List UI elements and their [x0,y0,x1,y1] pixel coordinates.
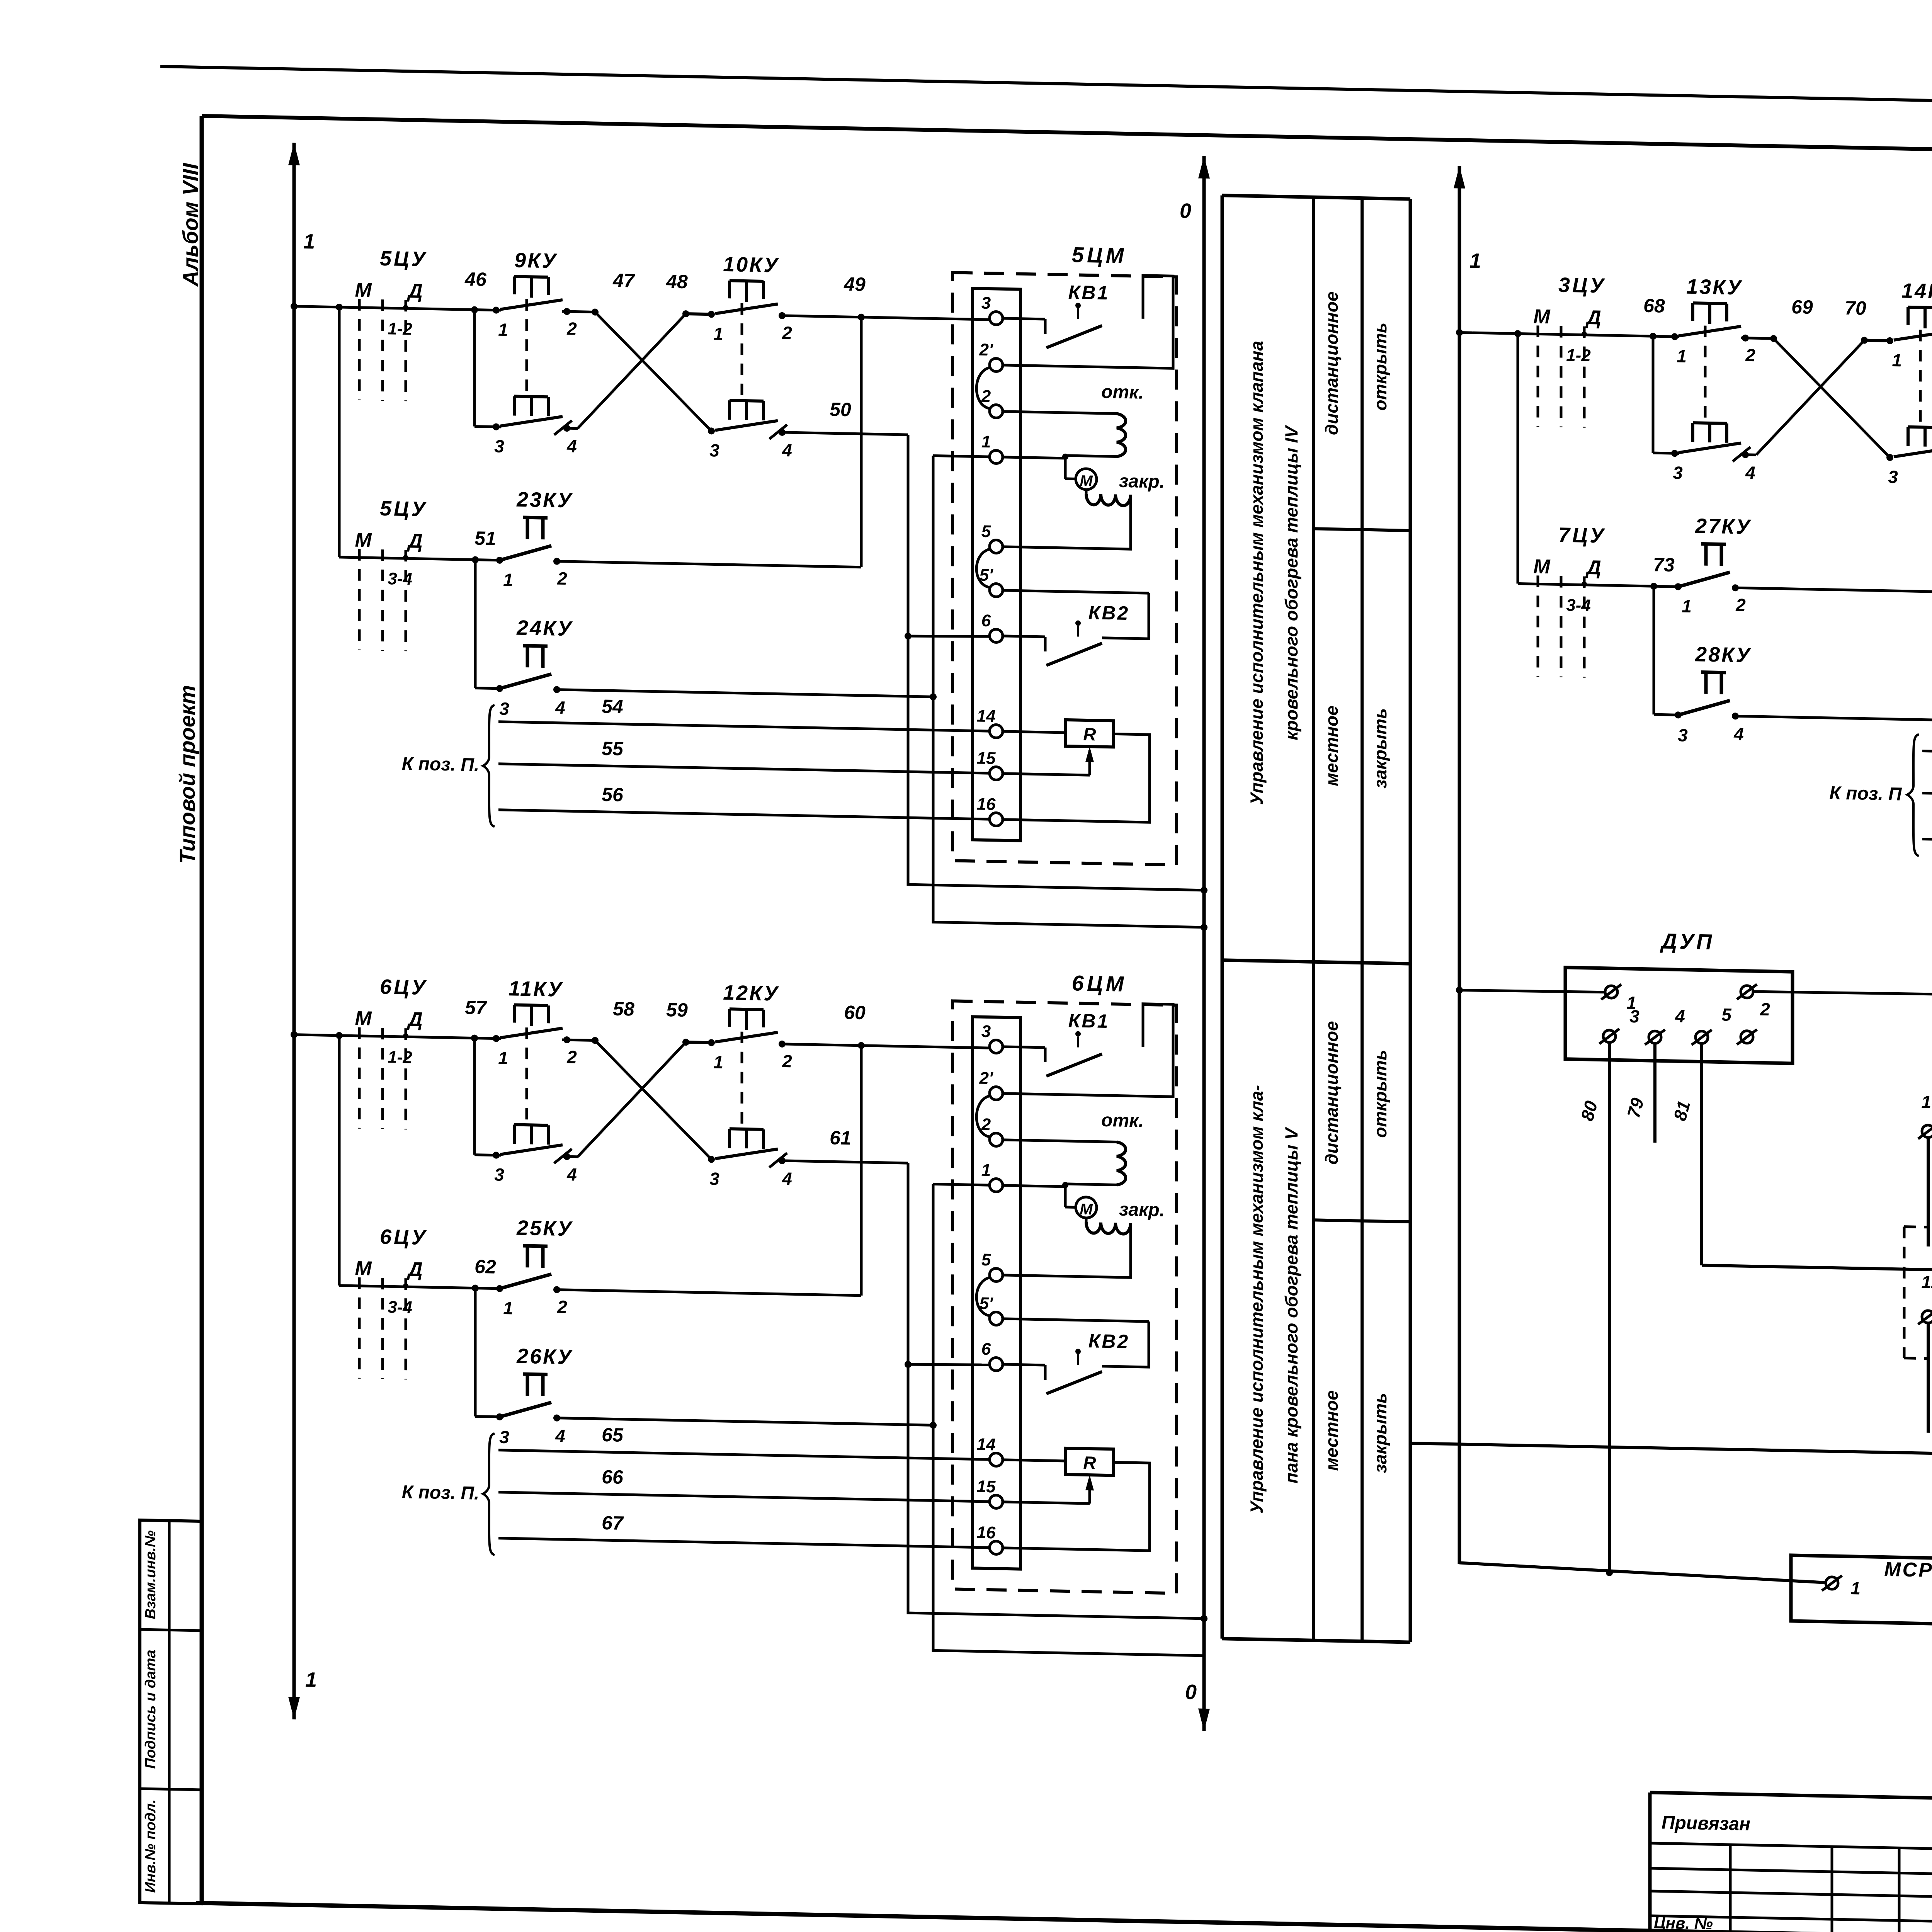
svg-text:16: 16 [977,1523,996,1543]
svg-text:Д: Д [1585,556,1601,579]
svg-text:1: 1 [1677,346,1687,366]
svg-text:М: М [355,529,372,552]
svg-text:65: 65 [602,1424,624,1446]
svg-text:3: 3 [1629,1006,1639,1026]
svg-text:57: 57 [465,997,487,1019]
svg-text:0: 0 [1180,199,1191,223]
svg-text:1: 1 [498,320,508,340]
svg-text:6: 6 [981,611,991,630]
svg-text:закр.: закр. [1119,471,1165,492]
svg-text:1: 1 [1469,249,1481,273]
svg-text:1-2: 1-2 [388,319,412,338]
svg-text:12КУ: 12КУ [723,981,779,1005]
svg-text:28КУ: 28КУ [1695,643,1752,667]
svg-text:М: М [1533,555,1551,578]
svg-text:Д: Д [1585,306,1601,329]
svg-text:47: 47 [612,269,635,291]
svg-text:Типовой проект: Типовой проект [175,685,199,864]
svg-text:5: 5 [1721,1005,1732,1025]
svg-text:К поз. П: К поз. П [1829,783,1902,805]
svg-text:3ЦУ: 3ЦУ [1558,273,1606,297]
svg-text:К поз. П.: К поз. П. [402,753,479,776]
svg-text:3: 3 [981,1022,991,1041]
svg-text:56: 56 [602,784,624,806]
svg-text:2: 2 [1760,999,1770,1019]
svg-text:закр.: закр. [1119,1199,1165,1221]
svg-text:Управление исполнительным меха: Управление исполнительным механизмом кла… [1247,340,1267,805]
svg-text:6: 6 [981,1340,991,1359]
svg-text:1: 1 [1892,350,1902,370]
svg-text:Взам.инв.№: Взам.инв.№ [143,1530,159,1619]
svg-text:12: 12 [1921,1272,1932,1292]
svg-text:60: 60 [844,1002,866,1024]
svg-text:70: 70 [1845,297,1866,319]
svg-text:1-2: 1-2 [388,1048,412,1067]
svg-text:3-4: 3-4 [388,569,412,588]
svg-text:2: 2 [1735,595,1746,615]
svg-text:Д: Д [406,1258,423,1281]
svg-text:ДУП: ДУП [1660,929,1714,954]
svg-text:Управление исполнительным меха: Управление исполнительным механизмом кла… [1247,1085,1267,1514]
svg-text:МСР: МСР [1884,1558,1932,1582]
svg-text:48: 48 [666,270,688,293]
svg-text:59: 59 [666,999,688,1021]
svg-text:Альбом VIII: Альбом VIII [178,162,202,287]
svg-text:открыть: открыть [1370,322,1390,411]
svg-text:4: 4 [782,1168,792,1189]
svg-text:Привязан: Привязан [1662,1813,1750,1835]
svg-text:3-4: 3-4 [388,1298,412,1317]
svg-text:местное: местное [1321,1390,1342,1471]
svg-text:5: 5 [981,522,991,541]
svg-text:КВ2: КВ2 [1088,1330,1130,1352]
svg-text:1: 1 [981,1161,991,1180]
svg-text:открыть: открыть [1370,1049,1390,1138]
svg-text:7ЦУ: 7ЦУ [1558,523,1606,547]
svg-text:М: М [355,279,372,302]
svg-text:3: 3 [709,1168,719,1189]
svg-text:Д: Д [406,280,423,303]
svg-text:10КУ: 10КУ [723,253,779,277]
svg-text:3: 3 [494,1165,504,1185]
svg-text:М: М [355,1257,372,1280]
svg-text:1: 1 [1850,1578,1861,1598]
svg-text:1: 1 [981,432,991,451]
svg-text:1: 1 [713,1052,723,1072]
svg-text:4: 4 [1733,724,1744,744]
svg-text:3: 3 [981,294,991,313]
svg-text:закрыть: закрыть [1370,708,1390,789]
svg-text:23КУ: 23КУ [516,488,573,512]
svg-text:закрыть: закрыть [1370,1393,1390,1473]
svg-text:24КУ: 24КУ [516,616,573,641]
svg-text:26КУ: 26КУ [516,1345,573,1369]
svg-text:5ЦУ: 5ЦУ [380,497,428,521]
svg-text:61: 61 [830,1127,851,1149]
svg-text:R: R [1083,724,1096,745]
svg-text:10: 10 [1921,1092,1932,1112]
svg-text:Подпись и дата: Подпись и дата [143,1650,159,1769]
svg-text:67: 67 [602,1512,624,1534]
svg-text:дистанционное: дистанционное [1321,1021,1342,1165]
svg-text:Цнв. №: Цнв. № [1654,1913,1713,1932]
svg-text:отк.: отк. [1101,382,1144,403]
svg-text:49: 49 [844,273,866,295]
svg-text:5ЦМ: 5ЦМ [1072,242,1127,268]
svg-text:Д: Д [406,1008,423,1031]
svg-text:2: 2 [566,1047,577,1067]
svg-text:Д: Д [406,530,423,553]
svg-text:6ЦМ: 6ЦМ [1072,971,1127,996]
svg-text:1-2: 1-2 [1566,346,1591,365]
svg-text:2: 2 [557,1297,567,1317]
svg-text:2: 2 [557,568,567,589]
svg-text:2: 2 [782,1051,792,1071]
svg-text:4: 4 [555,697,565,718]
svg-text:дистанционное: дистанционное [1321,291,1342,435]
svg-text:0: 0 [1185,1680,1197,1704]
svg-text:58: 58 [613,998,634,1020]
svg-text:25КУ: 25КУ [516,1216,573,1241]
svg-text:3: 3 [494,436,504,456]
svg-text:5: 5 [981,1250,991,1269]
svg-text:51: 51 [474,527,496,549]
svg-text:4: 4 [566,1164,577,1185]
svg-text:2: 2 [782,323,792,343]
svg-text:3: 3 [709,440,719,460]
svg-text:4: 4 [1745,463,1755,483]
svg-text:отк.: отк. [1101,1110,1144,1131]
svg-text:14КУ: 14КУ [1901,279,1932,303]
svg-text:11КУ: 11КУ [509,977,563,1001]
svg-text:13КУ: 13КУ [1686,275,1743,299]
svg-text:пана кровельного обогрева тепл: пана кровельного обогрева теплицы V [1281,1126,1301,1483]
svg-text:местное: местное [1321,706,1342,786]
svg-text:R: R [1083,1452,1096,1473]
svg-text:3-4: 3-4 [1566,596,1591,615]
svg-text:3: 3 [1673,463,1683,483]
svg-text:1: 1 [303,230,315,253]
svg-text:1: 1 [503,1298,513,1318]
svg-text:М: М [355,1007,372,1030]
svg-text:2: 2 [1745,345,1755,366]
svg-text:6ЦУ: 6ЦУ [380,975,428,999]
svg-text:50: 50 [830,398,851,420]
svg-text:2': 2' [979,340,993,360]
svg-text:54: 54 [602,696,623,718]
svg-text:1: 1 [713,323,723,344]
svg-text:4: 4 [555,1426,565,1446]
svg-text:4: 4 [1675,1006,1685,1026]
svg-text:1: 1 [1682,596,1692,616]
svg-text:62: 62 [474,1256,496,1278]
svg-text:3: 3 [499,699,509,719]
svg-text:14: 14 [977,1435,996,1454]
svg-text:кровельного обогрева теплицы: кровельного обогрева теплицы IV [1281,425,1301,740]
svg-text:М: М [1080,1201,1093,1218]
svg-text:14: 14 [977,707,996,726]
svg-text:46: 46 [464,268,487,290]
svg-text:1: 1 [305,1668,317,1692]
svg-text:2': 2' [979,1069,993,1088]
svg-text:1: 1 [503,570,513,590]
svg-text:3: 3 [499,1427,509,1447]
svg-text:КВ1: КВ1 [1068,281,1110,304]
svg-text:16: 16 [977,795,996,814]
svg-text:КВ2: КВ2 [1088,602,1130,624]
svg-text:4: 4 [566,436,577,456]
svg-text:К поз. П.: К поз. П. [402,1482,479,1504]
svg-text:М: М [1080,473,1093,490]
svg-text:15: 15 [977,1477,996,1497]
svg-text:3: 3 [1678,725,1688,745]
svg-text:66: 66 [602,1466,624,1488]
svg-text:6ЦУ: 6ЦУ [380,1225,428,1249]
svg-text:27КУ: 27КУ [1695,514,1752,539]
svg-text:Инв.№ подл.: Инв.№ подл. [143,1799,159,1893]
svg-text:69: 69 [1791,296,1813,318]
svg-text:15: 15 [977,749,996,768]
svg-text:2: 2 [566,318,577,339]
svg-text:3: 3 [1888,467,1898,487]
svg-text:КВ1: КВ1 [1068,1010,1110,1032]
svg-text:68: 68 [1643,295,1665,317]
svg-text:55: 55 [602,738,624,760]
svg-text:9КУ: 9КУ [514,249,558,273]
svg-text:1: 1 [498,1048,508,1068]
svg-text:4: 4 [782,440,792,461]
svg-text:73: 73 [1653,554,1675,576]
svg-text:5ЦУ: 5ЦУ [380,247,428,271]
svg-text:М: М [1533,305,1551,328]
